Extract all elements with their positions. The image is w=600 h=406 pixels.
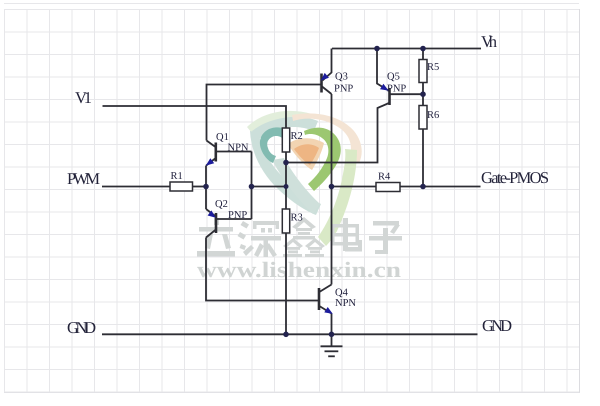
junction R6 bottom on gate rail (420, 184, 426, 190)
ground (331, 334, 333, 345)
svg-text:Q1: Q1 (216, 132, 229, 143)
svg-text:R5: R5 (427, 62, 439, 73)
svg-text:Q5: Q5 (387, 72, 400, 83)
resistor R6 (419, 106, 427, 130)
resistor R2 (282, 128, 289, 152)
wire gate rail right (400, 186, 481, 188)
svg-text:PNP: PNP (387, 84, 406, 95)
wire R5 bottom (422, 83, 424, 106)
svg-text:NPN: NPN (335, 298, 356, 309)
junction Q5 emitter on Vh rail (374, 46, 380, 52)
svg-text:Gate-PMOS: Gate-PMOS (481, 168, 549, 187)
designators (171, 62, 440, 309)
svg-text:PWM: PWM (67, 169, 100, 188)
wire R5 top (422, 49, 424, 60)
junction R3 top node (284, 184, 289, 189)
arrow Q3 (321, 73, 329, 81)
arrow Q1 (206, 158, 214, 165)
junction Q1-Q2 bases tie (249, 184, 255, 190)
arrow Q5 (380, 84, 389, 91)
transistor Q3 (320, 74, 323, 93)
svg-text:NPN: NPN (228, 143, 249, 154)
junction Q4 emitter GND node (329, 332, 335, 338)
svg-text:V1: V1 (75, 88, 92, 107)
arrow Q4 (324, 307, 333, 314)
resistor R5 (419, 60, 427, 83)
wire Q3 base (207, 85, 322, 141)
resistor R3 (282, 209, 289, 233)
svg-text:Q3: Q3 (335, 72, 348, 83)
wire Q1 emitter (205, 166, 207, 210)
resistor R4 (376, 183, 400, 192)
wire R2 bottom column (285, 152, 287, 209)
net labels (67, 32, 549, 337)
wire R1 to node (193, 186, 207, 188)
wire node to R2R3 column (252, 186, 286, 188)
svg-text:GND: GND (67, 318, 96, 337)
junction R5 top on Vh rail (420, 46, 426, 52)
wire base tie (251, 152, 253, 220)
wire R2 node to Q5 collector (286, 103, 389, 163)
svg-text:www.lishenxin.cn: www.lishenxin.cn (197, 257, 401, 282)
svg-text:PNP: PNP (334, 84, 353, 95)
transistor Q4 (318, 288, 321, 310)
arrow Q2 (208, 210, 216, 217)
logo watermark (247, 111, 362, 246)
junction Q1-Q2 emitters / PWM node (203, 184, 209, 190)
wire GND rail (102, 333, 478, 335)
svg-text:GND: GND (482, 316, 512, 335)
svg-text:Q2: Q2 (215, 199, 228, 210)
resistor R1 (170, 182, 193, 191)
wire Vh rail (332, 48, 481, 50)
watermark chinese text (197, 217, 402, 257)
svg-text:R4: R4 (378, 172, 391, 183)
svg-text:R2: R2 (291, 131, 303, 142)
junction R5-R6 divider node (420, 91, 426, 97)
wire Q5 emitter (377, 49, 389, 91)
svg-text:R1: R1 (171, 171, 183, 182)
svg-text:R3: R3 (291, 213, 303, 224)
wire Q4 emitter to GND (331, 314, 333, 335)
junction R2 bottom node (283, 160, 289, 166)
wire gate rail left (332, 186, 377, 188)
svg-text:Vh: Vh (481, 32, 498, 51)
wire PWM rail (102, 186, 170, 188)
junction R3 bottom GND node (283, 332, 289, 338)
arrows (206, 73, 389, 314)
transistor Q5 (388, 88, 391, 105)
svg-text:PNP: PNP (228, 210, 247, 221)
transistor Q1 (207, 141, 216, 148)
wire center column (331, 94, 333, 285)
wire Q2 collector to Q4 base (206, 238, 319, 301)
junction gate rail node (329, 184, 335, 190)
transistor Q2 (206, 209, 216, 217)
wire R3 to GND (285, 233, 287, 334)
svg-text:R6: R6 (427, 110, 439, 121)
wire Q3 emitter vertical (323, 49, 332, 81)
svg-text:Q4: Q4 (335, 288, 349, 299)
wire V1 rail (103, 106, 287, 128)
wire R6 bottom (422, 129, 424, 187)
